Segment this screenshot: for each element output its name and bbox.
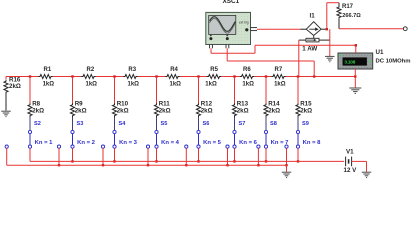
wire R12 to switch	[198, 117, 200, 130]
wire riser to bus	[313, 61, 315, 77]
wire switch S3 to bus	[72, 148, 74, 161]
switch S8	[264, 121, 289, 148]
svg-text:1kΩ: 1kΩ	[86, 82, 98, 88]
svg-text:Kn = 8: Kn = 8	[303, 140, 322, 146]
ammeter probe I1	[301, 13, 327, 39]
svg-text:1kΩ: 1kΩ	[205, 82, 217, 88]
resistor R16	[4, 77, 21, 111]
resistor R5	[205, 67, 221, 88]
ground under R16	[1, 111, 11, 116]
oscilloscope XSC1	[206, 0, 257, 48]
resistor R2	[81, 67, 97, 88]
wire ext trig to I1	[257, 28, 301, 30]
node switch S6 throw contact	[185, 145, 188, 148]
svg-text:I1: I1	[310, 13, 316, 20]
node S7 lower-bus junction	[226, 164, 228, 166]
svg-text:Kn = 4: Kn = 4	[161, 140, 180, 146]
wire switch S7 to bus	[234, 148, 236, 161]
wire scope B down	[226, 48, 228, 61]
svg-text:2kΩ: 2kΩ	[268, 108, 280, 115]
wire throw S8 to lower bus	[257, 148, 259, 165]
wire throw S4 to lower bus	[102, 148, 104, 165]
wire R14 to switch	[265, 117, 267, 130]
wire switch S2 to bus	[29, 148, 31, 161]
wire branch R9 top	[72, 77, 74, 105]
svg-text:R12: R12	[201, 100, 213, 107]
wire voltmeter top	[355, 44, 357, 53]
wire scope A down	[210, 48, 212, 53]
wire y45 to voltmeter top	[255, 44, 356, 46]
node S3 upper-bus junction	[71, 160, 73, 162]
svg-text:2kΩ: 2kΩ	[159, 108, 171, 115]
svg-text:2kΩ: 2kΩ	[300, 108, 312, 115]
wire scope A horizontal	[211, 52, 255, 54]
wire branch R10 top	[114, 77, 116, 105]
wire top bus	[6, 76, 355, 78]
node S6 upper-bus junction	[197, 160, 199, 162]
resistor R12	[196, 100, 212, 117]
node S8 upper-bus junction	[265, 160, 267, 162]
wire switch S6 to bus	[198, 148, 200, 161]
svg-text:R15: R15	[300, 100, 312, 107]
svg-text:S8: S8	[270, 121, 277, 127]
svg-text:R3: R3	[128, 67, 136, 73]
resistor R11	[154, 100, 170, 117]
wire lower bus to ground	[286, 165, 288, 172]
node S4 lower-bus junction	[102, 164, 104, 166]
fuse 1AW	[299, 38, 330, 52]
svg-text:2kΩ: 2kΩ	[117, 108, 129, 115]
svg-text:R2: R2	[87, 67, 95, 73]
wire branch R15 top	[297, 77, 299, 105]
resistor R13	[232, 100, 248, 117]
svg-text:1kΩ: 1kΩ	[170, 82, 182, 88]
wire fuse right down	[329, 29, 331, 56]
wire voltmeter bottom	[354, 69, 356, 77]
node S3 lower-bus junction	[58, 164, 60, 166]
wire throw S2 to lower bus	[6, 148, 8, 165]
wire scope A corner up	[254, 45, 256, 53]
svg-text:266.7Ω: 266.7Ω	[342, 13, 361, 19]
wire switch S5 to bus	[156, 148, 158, 161]
wire switch S8 to bus	[265, 148, 267, 161]
svg-text:S5: S5	[161, 121, 168, 127]
voltmeter U1	[338, 49, 411, 69]
switch S4	[113, 121, 138, 148]
wire R11 to switch	[156, 117, 158, 130]
svg-text:R10: R10	[117, 100, 129, 107]
wire switch S9 to bus	[297, 148, 299, 161]
svg-text:R4: R4	[170, 67, 178, 73]
wire upper bottom bus	[30, 160, 344, 162]
wire branch R12 top	[198, 77, 200, 105]
node S6 lower-bus junction	[185, 164, 187, 166]
svg-text:Kn = 5: Kn = 5	[203, 140, 222, 146]
svg-text:Kn = 1: Kn = 1	[35, 140, 54, 146]
wire branch R11 top	[156, 77, 158, 105]
svg-text:1kΩ: 1kΩ	[274, 82, 286, 88]
resistor R15	[296, 100, 312, 117]
svg-text:R6: R6	[243, 67, 251, 73]
node switch S7 throw contact	[226, 145, 229, 148]
resistor R8	[28, 100, 44, 117]
svg-text:Kn = 6: Kn = 6	[239, 140, 258, 146]
wire R9 to switch	[72, 117, 74, 130]
svg-text:S7: S7	[239, 121, 246, 127]
wire fuse left to bus	[298, 40, 300, 76]
wire R13 to switch	[234, 117, 236, 130]
resistor R9	[70, 100, 86, 117]
node S4 upper-bus junction	[113, 160, 115, 162]
svg-text:2kΩ: 2kΩ	[32, 108, 44, 115]
svg-text:R8: R8	[32, 100, 40, 107]
switch S5	[155, 121, 180, 148]
svg-text:2kΩ: 2kΩ	[237, 108, 249, 115]
node switch S5 throw contact	[146, 145, 149, 148]
svg-text:12 V: 12 V	[344, 167, 358, 174]
svg-text:DC 10MOhm: DC 10MOhm	[376, 58, 411, 64]
switch S9	[296, 121, 321, 148]
ground bottom middle	[282, 172, 292, 177]
svg-text:R14: R14	[268, 100, 280, 107]
svg-text:R11: R11	[159, 100, 171, 107]
svg-text:1 AW: 1 AW	[302, 46, 317, 53]
wire branch R14 top	[265, 77, 267, 105]
wire battery to ground	[352, 161, 367, 171]
resistor R6	[240, 67, 255, 88]
resistor R1	[38, 67, 54, 88]
svg-text:2kΩ: 2kΩ	[9, 83, 21, 90]
svg-text:2kΩ: 2kΩ	[201, 108, 213, 115]
svg-text:V1: V1	[346, 149, 354, 156]
svg-text:ext trig: ext trig	[239, 21, 249, 25]
ground right of bus	[349, 77, 361, 94]
node I1 right junction	[326, 28, 328, 30]
svg-text:R13: R13	[237, 100, 249, 107]
svg-text:S3: S3	[77, 121, 84, 127]
switch S6	[197, 121, 222, 148]
svg-text:S2: S2	[34, 121, 41, 127]
wire scope B horizontal	[227, 60, 314, 62]
svg-text:R9: R9	[75, 100, 83, 107]
node switch S9 throw contact	[285, 145, 288, 148]
wire throw S9 to lower bus	[286, 148, 288, 165]
svg-text:2kΩ: 2kΩ	[75, 108, 87, 115]
svg-text:R1: R1	[44, 67, 52, 73]
wire I1 to R17 top	[327, 3, 339, 30]
resistor R4	[165, 67, 181, 88]
svg-text:S4: S4	[119, 121, 127, 127]
svg-text:R17: R17	[342, 4, 354, 10]
resistor R17	[337, 3, 361, 29]
svg-text:U1: U1	[376, 49, 384, 56]
node top bus junctions	[29, 75, 357, 77]
node S7 upper-bus junction	[233, 160, 235, 162]
wire branch R8 top	[29, 77, 31, 105]
svg-text:1kΩ: 1kΩ	[242, 82, 254, 88]
node open terminal	[403, 27, 407, 31]
resistor R14	[264, 100, 280, 117]
wire throw S7 to lower bus	[227, 148, 229, 165]
svg-text:3.108: 3.108	[344, 59, 355, 64]
node switch S3 throw contact	[57, 145, 60, 148]
node S5 lower-bus junction	[147, 164, 149, 166]
svg-text:1kΩ: 1kΩ	[43, 82, 55, 88]
node S9 upper-bus junction	[297, 160, 299, 162]
switch S7	[233, 121, 258, 148]
svg-text:XSC1: XSC1	[223, 0, 240, 5]
ground bottom right	[362, 172, 372, 177]
ground small mid	[325, 56, 335, 61]
wire throw S5 to lower bus	[147, 148, 149, 165]
wire branch R13 top	[234, 77, 236, 105]
wire R15 to switch	[297, 117, 299, 130]
wire R8 to switch	[29, 117, 31, 130]
node switch S8 throw contact	[257, 145, 260, 148]
svg-text:R7: R7	[275, 67, 283, 73]
svg-text:1kΩ: 1kΩ	[128, 82, 140, 88]
resistor R7	[271, 67, 286, 88]
svg-text:Kn = 2: Kn = 2	[77, 140, 96, 146]
svg-text:Kn = 3: Kn = 3	[119, 140, 138, 146]
battery V1	[344, 149, 358, 175]
wire throw S3 to lower bus	[58, 148, 60, 165]
switch S2	[28, 121, 53, 148]
svg-text:R5: R5	[210, 67, 218, 73]
node S8 lower-bus junction	[257, 164, 259, 166]
switch S3	[71, 121, 96, 148]
svg-text:S6: S6	[203, 121, 210, 127]
wire R10 to switch	[114, 117, 116, 130]
wire switch S4 to bus	[114, 148, 116, 161]
node S5 upper-bus junction	[155, 160, 157, 162]
resistor R10	[112, 100, 128, 117]
wire lower bottom bus	[7, 164, 287, 166]
svg-text:S9: S9	[302, 121, 309, 127]
node S9 lower-bus junction	[285, 164, 287, 166]
node switch S4 throw contact	[101, 145, 104, 148]
wire R17 to terminal	[339, 28, 404, 30]
resistor R3	[123, 67, 139, 88]
node switch S2 throw contact	[5, 145, 8, 148]
wire throw S6 to lower bus	[185, 148, 187, 165]
